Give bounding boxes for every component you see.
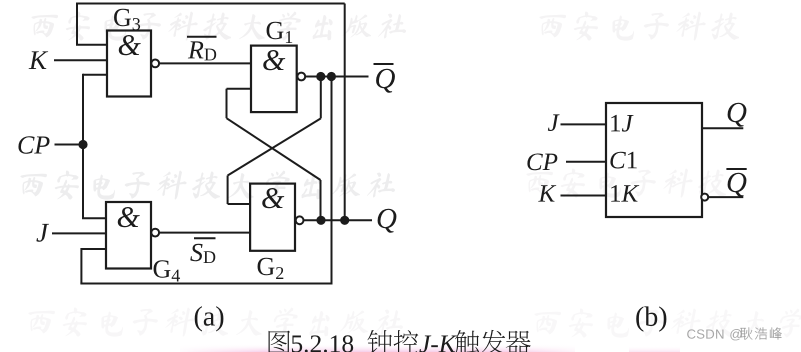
G4 ampersand [118, 207, 140, 227]
node J input wire [52, 232, 106, 234]
node J input wire (b) [561, 123, 607, 125]
label J input [36, 224, 49, 242]
wire: CP stub to G4 [82, 217, 106, 219]
junction CP node [78, 140, 87, 149]
output bubble Qbar (b) [701, 194, 708, 201]
G3 ampersand [119, 35, 141, 55]
label Qbar output (b) [728, 173, 747, 197]
wire: Q feedback top horizontal [77, 3, 345, 5]
junction Q to G1 [316, 216, 325, 225]
label RD with overline [188, 41, 204, 58]
wire: cross-coupling Qbar to G2 input [320, 77, 322, 119]
gate G3 box [107, 31, 151, 97]
subfigure label (a) [195, 306, 202, 331]
label CP input [18, 136, 34, 153]
pin label 1J [611, 115, 620, 132]
node K input wire (b) [561, 195, 607, 197]
label SD with overline [190, 244, 202, 261]
label CP (b) [527, 153, 543, 170]
wire RD from G3 to G1 [159, 62, 251, 64]
label J (b) [548, 114, 560, 131]
pin label C1 [610, 152, 626, 169]
wire: Q feedback right vertical [344, 4, 346, 221]
label Q output (b) [728, 103, 747, 127]
label K input [29, 51, 48, 69]
node K input wire [54, 59, 107, 61]
wire: CP stub to G3 [83, 74, 107, 76]
junction Q to G3 feedback [340, 216, 349, 225]
wire: Qbar feedback stub to G4 [81, 248, 106, 250]
CSDN watermark [687, 329, 695, 338]
junction Qbar to G4 feedback [327, 72, 336, 81]
wire: cross-coupling Q to G1 input [227, 88, 252, 90]
gate G2 box [250, 184, 295, 251]
label Q output [378, 209, 397, 233]
wire: feedback stub into G3 [76, 44, 107, 46]
wire: bottom feedback horizontal [80, 283, 331, 285]
node Q output wire (b) [702, 127, 743, 129]
G2 ampersand [262, 188, 284, 208]
wire SD from G4 to G2 [159, 232, 250, 234]
gate label G1 [267, 22, 284, 39]
gate G3 bubble [151, 60, 159, 68]
node CP input wire (b) [566, 161, 606, 163]
G1 ampersand [263, 50, 285, 70]
label Qbar output [376, 69, 395, 93]
figure caption [269, 331, 291, 352]
gate label G3 [114, 9, 131, 26]
pin label 1K [611, 185, 620, 202]
wire: Q output line [303, 219, 372, 221]
node Qbar output wire (b) [708, 196, 743, 198]
gate G4 box [106, 202, 151, 269]
gate G4 bubble [151, 229, 159, 237]
gate label G2 [258, 258, 275, 275]
gate G1 box [251, 46, 297, 113]
flip-flop symbol box [606, 103, 702, 217]
label K (b) [538, 185, 556, 201]
gate G2 bubble [296, 216, 304, 224]
gate label G4 [154, 260, 171, 277]
subfigure label (b) [636, 306, 643, 331]
node CP input wire [55, 144, 84, 146]
gate G1 bubble [297, 73, 305, 81]
wire: right vertical Qbar to bottom [331, 77, 333, 285]
wire: CP vertical [82, 74, 84, 219]
wire: top-left vertical [76, 3, 78, 45]
junction Qbar to G2 [316, 72, 325, 81]
wire: bottom-left vertical [80, 248, 82, 284]
wire: Qbar output line [305, 76, 369, 78]
